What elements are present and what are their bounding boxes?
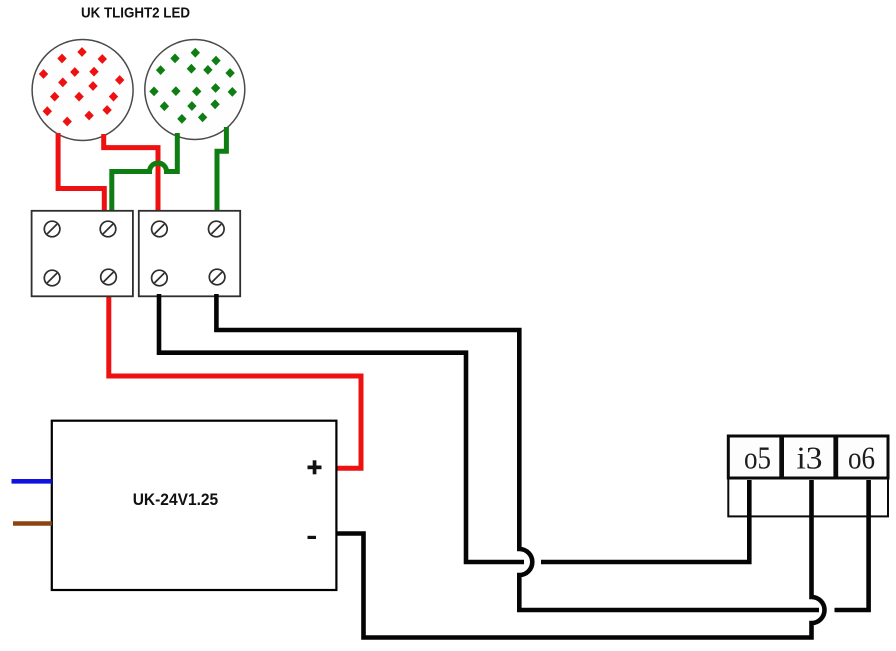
- svg-text:o5: o5: [744, 439, 771, 475]
- svg-text:o6: o6: [848, 439, 875, 475]
- svg-text:i3: i3: [797, 439, 823, 475]
- svg-text:UK TLIGHT2 LED: UK TLIGHT2 LED: [81, 5, 190, 22]
- svg-text:UK-24V1.25: UK-24V1.25: [133, 491, 219, 509]
